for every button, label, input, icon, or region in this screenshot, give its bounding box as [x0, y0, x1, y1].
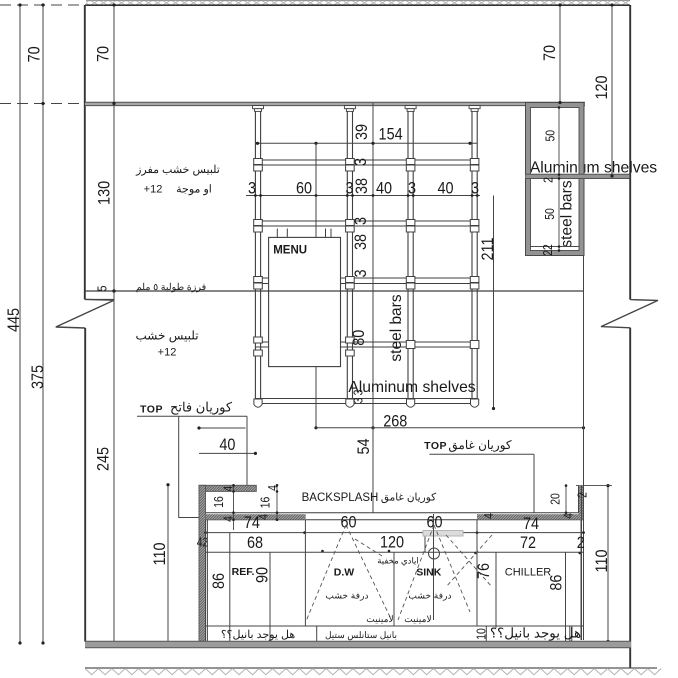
svg-text:3: 3: [248, 180, 256, 198]
svg-text:هل يوجد بانيل؟؟: هل يوجد بانيل؟؟: [221, 629, 296, 641]
svg-text:2: 2: [575, 492, 589, 498]
svg-text:40: 40: [376, 180, 392, 198]
svg-text:لامينيت: لامينيت: [404, 614, 432, 624]
svg-text:كوريان غامق: كوريان غامق: [448, 438, 512, 452]
svg-text:MENU: MENU: [273, 244, 307, 256]
svg-text:16: 16: [212, 496, 226, 508]
svg-text:D.W: D.W: [334, 567, 355, 579]
svg-text:SINK: SINK: [416, 567, 442, 579]
svg-text:كوريان غامق: كوريان غامق: [381, 492, 437, 504]
svg-text:فرزة طولية ٥ ملم: فرزة طولية ٥ ملم: [136, 282, 207, 293]
svg-text:50: 50: [543, 130, 557, 142]
svg-text:50: 50: [543, 208, 557, 220]
svg-text:او موجة: او موجة: [176, 184, 212, 196]
svg-text:3: 3: [352, 397, 366, 403]
svg-text:22: 22: [541, 244, 555, 256]
svg-text:REF.: REF.: [232, 566, 255, 578]
svg-text:154: 154: [379, 126, 403, 144]
svg-text:3: 3: [408, 180, 416, 198]
svg-text:4: 4: [562, 513, 576, 519]
svg-text:86: 86: [210, 573, 228, 589]
svg-text:كوريان فاتح: كوريان فاتح: [170, 400, 233, 416]
svg-text:BACKSPLASH: BACKSPLASH: [302, 492, 379, 504]
svg-text:245: 245: [95, 447, 113, 471]
svg-text:39: 39: [353, 124, 371, 140]
svg-text:16: 16: [258, 496, 272, 508]
svg-text:72: 72: [520, 534, 536, 552]
svg-text:3: 3: [352, 217, 370, 225]
svg-text:تلبيس خشب: تلبيس خشب: [135, 329, 198, 343]
svg-text:110: 110: [151, 542, 169, 565]
svg-text:38: 38: [352, 234, 370, 250]
svg-text:steel bars: steel bars: [559, 180, 576, 247]
svg-text:445: 445: [5, 308, 23, 332]
svg-text:CHILLER: CHILLER: [505, 567, 552, 579]
svg-text:3: 3: [345, 180, 353, 198]
svg-text:76: 76: [475, 563, 493, 579]
svg-text:4: 4: [222, 485, 236, 491]
svg-text:70: 70: [541, 45, 559, 61]
svg-text:40: 40: [437, 180, 453, 198]
svg-text:ايادي مخفية: ايادي مخفية: [377, 556, 419, 566]
svg-text:120: 120: [380, 534, 404, 552]
svg-text:211: 211: [479, 237, 497, 260]
svg-text:درفة خشب: درفة خشب: [325, 591, 368, 602]
svg-text:74: 74: [523, 515, 539, 533]
svg-text:38: 38: [353, 178, 371, 194]
svg-text:130: 130: [95, 181, 113, 205]
svg-text:120: 120: [593, 75, 611, 99]
svg-text:3: 3: [471, 180, 479, 198]
svg-text:Aluminum shelves: Aluminum shelves: [348, 379, 475, 396]
svg-text:70: 70: [25, 46, 43, 62]
svg-text:60: 60: [426, 513, 442, 531]
svg-text:steel bars: steel bars: [388, 294, 405, 361]
svg-text:40: 40: [219, 436, 235, 454]
svg-text:تلبيس خشب مفرز: تلبيس خشب مفرز: [135, 164, 220, 176]
svg-text:هل يوجد بانيل؟؟: هل يوجد بانيل؟؟: [490, 626, 581, 642]
svg-text:+12: +12: [144, 184, 163, 196]
svg-text:لامينيت: لامينيت: [366, 614, 394, 624]
svg-text:110: 110: [593, 549, 611, 572]
svg-text:TOP: TOP: [424, 440, 447, 452]
svg-text:2: 2: [542, 177, 556, 183]
svg-text:20: 20: [549, 493, 563, 505]
svg-text:4: 4: [482, 513, 496, 519]
svg-text:3: 3: [352, 269, 370, 277]
svg-text:3: 3: [352, 158, 370, 166]
svg-text:54: 54: [355, 438, 373, 454]
svg-text:42: 42: [197, 536, 209, 550]
svg-text:+12: +12: [158, 347, 177, 359]
svg-text:5: 5: [96, 285, 110, 291]
svg-text:4: 4: [266, 485, 280, 491]
svg-text:درفة خشب: درفة خشب: [408, 591, 451, 602]
svg-text:70: 70: [95, 46, 113, 62]
svg-text:60: 60: [340, 514, 356, 532]
svg-text:10: 10: [475, 628, 489, 640]
svg-text:بانيل ستانلس ستيل: بانيل ستانلس ستيل: [325, 630, 397, 641]
svg-text:4: 4: [222, 516, 236, 522]
svg-text:86: 86: [548, 574, 566, 590]
svg-text:90: 90: [254, 567, 272, 583]
svg-text:60: 60: [296, 180, 312, 198]
svg-text:TOP: TOP: [140, 403, 163, 415]
svg-text:375: 375: [29, 365, 47, 389]
svg-text:80: 80: [350, 329, 368, 345]
svg-text:4: 4: [257, 514, 271, 520]
svg-text:68: 68: [247, 534, 263, 552]
